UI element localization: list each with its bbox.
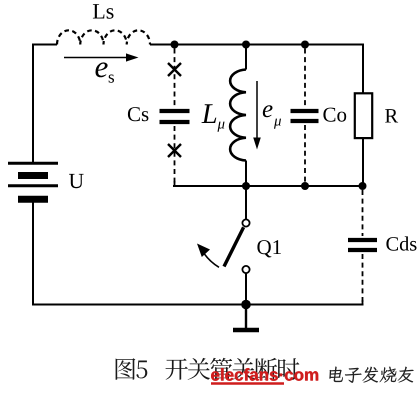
switch Q1 top contact (242, 219, 249, 226)
caption text 开关管关断时 (166, 358, 300, 380)
wire: switch bottom stub (245, 273, 247, 304)
label e_s (96, 62, 115, 82)
battery U (8, 163, 58, 199)
x-mark upper on Cs branch (168, 63, 181, 76)
wire: right rail upper (362, 44, 364, 94)
wire: top rail (150, 44, 364, 46)
wire: Co branch dashed lower (304, 125, 306, 186)
node dot: Lmu bottom junction (242, 182, 250, 190)
capacitor Co (291, 109, 319, 113)
wire: Cds branch dashed lower (362, 254, 364, 304)
wire: R bottom stub (362, 138, 364, 187)
node dot: Lmu top (242, 41, 250, 49)
label Cs (128, 107, 148, 121)
wire: Cs branch dashed lower (174, 126, 176, 186)
label Lmu (202, 104, 225, 131)
switch Q1 blade (224, 227, 244, 266)
resistor R (355, 93, 372, 138)
ground (245, 305, 247, 329)
arrow e_mu (256, 81, 258, 138)
wire: left rail upper (32, 44, 34, 163)
node dot: Co top (301, 41, 309, 49)
inductor Ls (dashed coil) (57, 30, 150, 44)
node dot: Cs top junction (171, 41, 179, 49)
wire: Co branch dashed upper (304, 49, 306, 108)
node dot: ground junction (241, 300, 251, 310)
wire: Lmu bottom stub (245, 161, 247, 187)
capacitor Cs (160, 109, 190, 113)
wire: left rail lower (32, 202, 34, 306)
label Ls (93, 4, 114, 19)
label Q1 (257, 240, 281, 257)
node dot: Co bottom junction (301, 182, 309, 190)
watermark elecfans.com (211, 368, 318, 381)
wire: switch top stub (245, 186, 247, 220)
watermark underline (211, 382, 284, 385)
wire: Lmu top stub (245, 45, 247, 70)
label U (69, 174, 84, 188)
wire: bottom rail (32, 304, 364, 306)
label e_mu (263, 105, 281, 129)
label R (385, 109, 398, 122)
wire: top-left horizontal segment (32, 44, 57, 46)
node dot: R bottom junction (359, 182, 367, 190)
inductor Lmu (coil) (230, 70, 246, 161)
label Cds (386, 236, 416, 250)
label Co (323, 108, 346, 122)
watermark 电子发烧友 (328, 367, 415, 383)
arrow: switch motion (202, 250, 220, 268)
caption text 图5 (116, 358, 148, 380)
wire: mid rail (173, 185, 364, 187)
arrow e_s (64, 57, 127, 59)
capacitor Cds (348, 238, 377, 242)
x-mark lower on Cs branch (168, 144, 181, 157)
wire: Cs branch dashed upper (174, 49, 176, 108)
wire: Cds branch dashed upper (362, 190, 364, 236)
switch Q1 bottom contact (242, 266, 249, 273)
